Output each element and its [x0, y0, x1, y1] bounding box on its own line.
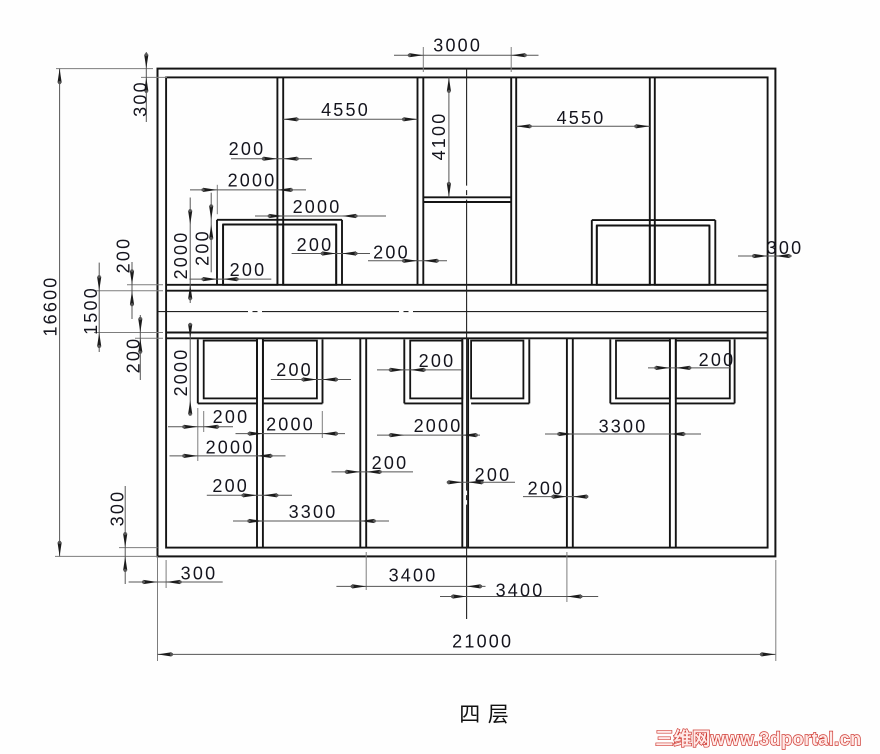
dimension 2000 upper-left A3 [190, 189, 306, 191]
lower wall 3 left line [461, 338, 463, 547]
svg-text:200: 200 [373, 243, 410, 263]
dimension 200 room2 bath wall D13 [271, 379, 351, 381]
lower room 6 bathroom outer wall [734, 339, 736, 403]
dimension 4550 upper-right room [516, 125, 650, 127]
dimension 2000 upper-left V6 [189, 198, 191, 304]
upper-left block right wall inner [335, 225, 337, 285]
lower room 5 bathroom bottom lip [610, 402, 670, 404]
stairwell right wall inner [510, 77, 512, 284]
svg-text:2000: 2000 [228, 171, 277, 191]
lower room 6 bathroom square [676, 341, 730, 399]
lower room 4 bathroom square [471, 341, 523, 399]
dimension 300 bottom wall V9 [124, 486, 126, 584]
dimension 200 corridor bottom wall V5 [139, 315, 141, 380]
upper-right block top wall inner [597, 225, 710, 227]
svg-text:3300: 3300 [289, 502, 338, 522]
svg-text:2000: 2000 [293, 197, 342, 217]
svg-text:2000: 2000 [206, 438, 255, 458]
lower room 1 bathroom bottom lip [198, 402, 257, 404]
upper-right divider wall right line [654, 77, 656, 284]
dimension 1500 corridor V4 [98, 263, 100, 352]
lower room 4 bathroom bottom lip [471, 402, 529, 404]
svg-text:三维网www.3dportal.cn: 三维网www.3dportal.cn [655, 728, 861, 749]
lower room 3 bathroom outer wall [403, 339, 405, 403]
corridor centerline (dash-dot) [158, 311, 768, 313]
upper-right block top wall outer [592, 219, 716, 221]
lower wall 2 right line [365, 338, 367, 547]
dimension 200 corridor top wall V3 [131, 262, 133, 319]
dimension 300 left wall E1 [129, 581, 223, 583]
upper-left block top wall inner [223, 224, 336, 226]
inner wall rectangle [166, 77, 768, 547]
lower wall 2 left line [359, 338, 361, 547]
dimension 2000 room3 D8 [377, 434, 480, 436]
svg-text:21000: 21000 [452, 632, 513, 652]
corridor bottom wall lower line [166, 337, 768, 339]
stairwell left wall inner [422, 77, 424, 284]
lower room 2 bathroom bottom lip [263, 402, 323, 404]
upper-right divider wall left line [649, 77, 651, 284]
wall W1 right line [282, 77, 284, 284]
lower room 3 bathroom bottom lip [404, 402, 462, 404]
dimension 3400 bottom E2 [336, 585, 485, 587]
svg-text:300: 300 [181, 564, 218, 584]
dimension 200 room1 bath wall D1 [168, 426, 233, 428]
stairwell bottom wall lower [423, 201, 511, 203]
dimension 4100 stairwell height [448, 77, 450, 197]
svg-text:2000: 2000 [414, 416, 463, 436]
dimension 200 block left wall A7 [189, 278, 271, 280]
svg-text:4100: 4100 [429, 112, 449, 161]
stairwell right wall outer [515, 77, 517, 284]
wall W1 left line [276, 77, 278, 284]
dimension 3300 room5 width D11 [545, 433, 701, 435]
dimension 200 wall W1 [231, 158, 312, 160]
upper-left small room B [283, 225, 336, 285]
svg-text:4550: 4550 [557, 108, 606, 128]
svg-text:4550: 4550 [321, 100, 370, 120]
lower wall 4 left line [566, 338, 568, 547]
svg-text:2000: 2000 [266, 415, 315, 435]
svg-text:3400: 3400 [496, 581, 545, 601]
stairwell left wall outer [417, 77, 419, 284]
lower wall 4 right line [572, 338, 574, 547]
extension lines [56, 68, 153, 70]
svg-text:200: 200 [230, 260, 267, 280]
svg-text:1500: 1500 [81, 286, 101, 335]
svg-text:3400: 3400 [389, 566, 438, 586]
dimension 4550 upper-left room [283, 118, 417, 120]
svg-text:200: 200 [276, 360, 313, 380]
dimension 200 wall45 D10 [523, 496, 586, 498]
upper-left block top wall outer [217, 219, 342, 221]
svg-text:2000: 2000 [171, 348, 191, 397]
svg-text:200: 200 [475, 465, 512, 485]
upper-right small room R2 [655, 226, 710, 285]
upper-left block left wall inner [222, 225, 224, 285]
dimension 200 upper-left A5 [292, 253, 370, 255]
svg-text:200: 200 [699, 350, 736, 370]
dimension 3300 room2 width D5 [233, 520, 389, 522]
corridor top wall upper line [166, 284, 768, 286]
upper-left block right wall outer [341, 220, 343, 285]
lower wall 5 left line [669, 338, 671, 547]
upper-right block right wall outer [714, 220, 716, 285]
corridor top wall lower line [166, 290, 768, 292]
dimension 21000 total width [158, 653, 776, 655]
outer wall rectangle [158, 69, 776, 557]
lower room 2 bathroom outer wall [322, 339, 324, 403]
svg-text:16600: 16600 [41, 275, 61, 336]
lower room 6 bathroom bottom lip [676, 402, 735, 404]
corridor bottom wall upper line [166, 332, 768, 334]
lower wall 5 right line [675, 338, 677, 547]
svg-text:200: 200 [528, 479, 565, 499]
lower room 1 bathroom outer wall [197, 339, 199, 403]
dimension 3400 bottom E3 [440, 596, 598, 598]
upper-right block right wall inner [708, 226, 710, 285]
svg-text:2000: 2000 [171, 231, 191, 280]
svg-text:四层: 四层 [459, 704, 516, 727]
svg-text:200: 200 [114, 237, 134, 274]
dimension 2000 room1 D3 [170, 455, 286, 457]
dimension 300 top wall V2 [145, 52, 147, 122]
svg-text:200: 200 [212, 476, 249, 496]
svg-text:200: 200 [372, 453, 409, 473]
svg-text:200: 200 [213, 407, 250, 427]
dimension 200 wall23 D6 [332, 471, 414, 473]
upper-left block left wall outer [216, 220, 218, 285]
lower room 1 bathroom square [204, 341, 257, 399]
lower wall 1 left line [256, 338, 258, 547]
vertical axis centerline (dash-dot) [466, 69, 468, 619]
dimension 200 block top wall V7 [210, 193, 212, 273]
svg-text:200: 200 [229, 139, 266, 159]
svg-text:300: 300 [108, 490, 128, 527]
svg-text:200: 200 [419, 351, 456, 371]
lower room 2 bathroom square [263, 341, 317, 399]
dimension 200 room3 bath wall D7 [377, 369, 461, 371]
upper-right block left wall inner [596, 226, 598, 285]
dimension 2000 room2 D2 [236, 433, 346, 435]
svg-text:300: 300 [131, 80, 151, 117]
dimension 16600 total height [59, 69, 61, 557]
dimension 200 stairwell wall A6 [368, 260, 447, 262]
svg-text:3300: 3300 [599, 417, 648, 437]
svg-text:200: 200 [124, 337, 144, 374]
upper-right small room R1 [597, 226, 650, 285]
dimension 2000 lower-left V8 [189, 326, 191, 411]
stairwell bottom wall upper [423, 196, 511, 198]
upper-right block left wall outer [591, 220, 593, 285]
svg-text:3000: 3000 [433, 36, 482, 56]
svg-text:200: 200 [193, 229, 213, 266]
lower wall 1 right line [262, 338, 264, 547]
lower room 5 bathroom square [616, 341, 670, 399]
upper-left small room A [223, 225, 277, 285]
svg-text:300: 300 [767, 238, 804, 258]
dimension 300 right wall B2 [738, 255, 792, 257]
dimension 3000 stairwell width [394, 54, 539, 56]
svg-text:200: 200 [297, 235, 334, 255]
lower wall 3 right line [467, 338, 469, 547]
dimension 200 central wall D9 [450, 481, 515, 483]
dimension 2000 upper-left A4 [255, 215, 386, 217]
lower room 3 bathroom square [410, 341, 462, 399]
lower room 5 bathroom outer wall [609, 339, 611, 403]
lower room 4 bathroom outer wall [528, 339, 530, 403]
dimension 200 wall56 D12 [648, 367, 731, 369]
dimension 200 wall12 D4 [207, 494, 292, 496]
